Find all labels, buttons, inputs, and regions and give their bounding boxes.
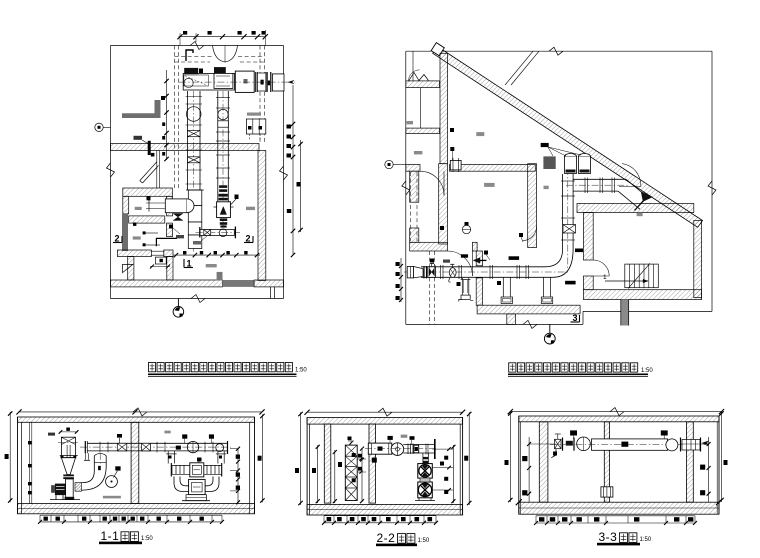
left edge dimension blobs plan2 — [400, 258, 402, 302]
wall V3 stair room left — [583, 213, 593, 261]
fan base — [415, 500, 435, 502]
corner tick stars — [516, 499, 522, 505]
U-bend right — [205, 477, 219, 492]
section 1-1 top dimension line — [19, 411, 262, 413]
stack side leader ticks — [357, 458, 366, 460]
svg-text:1:50: 1:50 — [418, 538, 430, 544]
vent zigzag symbol — [409, 73, 429, 81]
plan 2 boundary top wall — [406, 50, 712, 52]
inline box s2 — [414, 445, 419, 453]
cyclone flange — [60, 455, 78, 457]
duct elbow to riser — [545, 249, 563, 267]
right wall crossing unit striped — [680, 438, 682, 452]
pipe end flange left — [199, 227, 201, 238]
axis bubble stem plan2 — [549, 324, 551, 333]
axis bubble A left — [95, 123, 103, 131]
axis bubble B left plan2 — [385, 160, 393, 168]
duct D1 flange ticks — [186, 96, 203, 98]
door arc on H2 — [447, 251, 472, 276]
svg-text:1:50: 1:50 — [640, 537, 652, 543]
door arc stair room — [593, 260, 609, 276]
duct circle small — [216, 444, 224, 452]
UD flange ticks — [584, 178, 586, 194]
interior dimension line room row — [173, 254, 260, 256]
section 2-2 top dimension line — [307, 411, 463, 413]
pump pedestal — [186, 495, 206, 501]
duct MD inlet reducer cone — [414, 267, 423, 278]
wall V5 mid-lower — [476, 251, 482, 266]
duct MD drop branch 2 — [502, 277, 504, 297]
room R1 left wall — [123, 196, 129, 214]
section 2-2 left dim line — [300, 412, 302, 505]
pipe end flange right — [234, 227, 236, 239]
exhaust fan EF1 canister — [565, 157, 577, 174]
wall H1 right segment — [450, 165, 536, 172]
filter stack column — [345, 445, 357, 500]
room R2 left wall grey — [122, 214, 128, 251]
duct D2 inline box — [218, 121, 229, 127]
section 1-1 right dimension line — [261, 415, 263, 503]
room R2 equipment marks — [143, 231, 146, 234]
base line under cyclone — [50, 499, 80, 501]
wall V4 right end — [694, 221, 702, 298]
section 2-2 roof slab — [307, 418, 463, 425]
filter box U1 — [235, 71, 254, 92]
inlet top tick — [557, 434, 559, 440]
label above pumps — [197, 458, 202, 462]
plan 2 bottom boundary — [406, 323, 583, 325]
room labels left shaft — [407, 121, 414, 124]
duct MD butterfly damper — [428, 267, 436, 278]
filter-fan unit A — [217, 202, 231, 218]
duct blob mid — [176, 446, 181, 450]
exhaust symbol with leader — [134, 136, 143, 140]
svg-text:1:50: 1:50 — [295, 368, 307, 374]
room label P-well — [637, 213, 643, 216]
section 2-2 floor slab — [307, 504, 463, 515]
pump upper side pipes striped — [171, 465, 173, 474]
duct D1 filter cell stack — [188, 190, 202, 206]
svg-text:1-1: 1-1 — [101, 529, 120, 543]
shaft divider line — [420, 88, 422, 129]
break symbol top wall — [190, 42, 204, 50]
left wall lower hatch lower — [410, 228, 419, 242]
left wall lower hatch upper — [410, 171, 419, 202]
long duct cylinder — [592, 439, 668, 450]
horizontal pipe to plenum — [200, 230, 235, 236]
cyclone dust collector top dim — [60, 431, 78, 433]
wall H2 lower-left — [410, 242, 448, 251]
axis bubble stem plan1 — [177, 299, 179, 307]
section 1-1 floor slab — [18, 504, 255, 514]
duct to wall — [403, 444, 434, 446]
UD angled segment through wall — [626, 179, 648, 197]
wall H4 bottom of stair room — [583, 290, 701, 300]
bottom hatched wall band W4 — [111, 280, 223, 287]
section 3-3 right dim line — [721, 412, 723, 502]
duct flange ticks s1 — [99, 442, 101, 453]
fan F2 casing — [214, 73, 233, 88]
brace diagonal lower-left — [123, 264, 133, 272]
caption plan2: di-er fanghu danyuan zhanshi paifeng jifang pingmiantu 1:50 — [509, 363, 516, 372]
room R3 pump box — [155, 257, 166, 264]
room R1 right wall — [167, 196, 173, 216]
intake duct cylinder — [272, 74, 284, 91]
duct D2 damper circle — [218, 109, 228, 119]
small fan symbol room center — [462, 225, 470, 233]
svg-text:2-2: 2-2 — [377, 531, 396, 545]
component on wall H1 — [450, 160, 461, 170]
unit A label leader — [230, 199, 236, 205]
label and tick top area — [450, 128, 454, 132]
tick above duct s2 — [411, 440, 413, 445]
pump unit lower — [189, 479, 206, 494]
riser pipe to fans — [422, 453, 424, 464]
silencer label — [388, 436, 393, 440]
wall V2 vertical — [528, 164, 537, 248]
plan 2 boundary right wall — [711, 51, 713, 311]
section 3-3 wall M — [604, 422, 609, 502]
left inner dim line s3 — [528, 437, 530, 502]
elbow duct S-bend — [81, 456, 94, 483]
exhaust fan EF2 canister — [579, 157, 591, 174]
fan label leaders — [541, 143, 549, 147]
room R2 pipe elbow — [156, 238, 177, 246]
duct MD drop branch 1 — [461, 278, 463, 295]
section 3-3 floor slab — [519, 502, 719, 514]
duct MD small valve circle — [449, 268, 456, 278]
pipe valve V3 — [204, 230, 211, 236]
main duct left flanges — [84, 441, 86, 453]
fan scroll circle — [391, 443, 404, 456]
axial fan unit 2 — [418, 482, 433, 498]
door through diagonal wall — [622, 164, 641, 187]
drop pipe left to pump — [167, 451, 169, 464]
cyclone drop duct — [66, 479, 74, 500]
wall W1 horizontal hatched band — [111, 144, 260, 151]
double door arcs at top wall — [213, 46, 226, 63]
duct D2 flange ticks — [216, 97, 230, 99]
section 3-3 wall L — [539, 422, 548, 502]
cyclone cone — [61, 458, 75, 475]
duct MD drop branch 3 — [543, 277, 545, 297]
left bracket below duct — [551, 449, 556, 458]
right inner dim arrowhead — [702, 441, 709, 445]
axis bubble plan2 — [544, 333, 555, 344]
double riser lines bottom right — [270, 287, 272, 299]
right inner dim line s3 — [708, 437, 710, 502]
left well inner line top — [412, 51, 414, 81]
section 1-1 roof slab — [18, 417, 255, 422]
duct circle large — [187, 441, 198, 452]
upper duct UD to diagonal wall — [574, 178, 627, 180]
left shaft wall band H-a — [406, 81, 440, 88]
fan F2 motor block — [214, 67, 226, 74]
pipe damper circle — [219, 229, 227, 237]
main duct valve B — [142, 443, 151, 451]
duct left inlet valve — [555, 439, 562, 448]
dashed duct-shaft lines vertical left pair — [174, 46, 176, 189]
equipment labels E-codes — [509, 256, 519, 260]
stack right dim line — [361, 448, 363, 502]
tick pair above duct — [119, 438, 121, 443]
duct labels above s3 — [570, 430, 577, 435]
duct MD reducer flanges — [423, 266, 425, 278]
top dimension line plan1 — [179, 36, 267, 38]
section 1-1 middle wall — [131, 422, 139, 503]
break symbol bottom wall — [191, 295, 205, 303]
section 1-1 interior pilaster lines — [28, 422, 30, 503]
section 3-3 left dim line — [509, 412, 511, 502]
flex connector rings above unit A — [219, 185, 227, 188]
vertical duct D2 right — [217, 91, 219, 202]
diagonal wall end cap top — [431, 43, 444, 56]
dashed recess lines below duct — [428, 251, 430, 324]
left shaft wall band H-b — [406, 128, 440, 133]
section 1-1 left wall — [17, 417, 19, 514]
silencer box — [368, 443, 392, 454]
flex between fans — [420, 478, 430, 482]
duct MD inlet end cap — [407, 267, 413, 278]
break symbol right wall — [280, 166, 288, 180]
right inner dimension ticks s1 — [237, 449, 239, 503]
plenum box U2 with flanges — [255, 72, 257, 92]
main duct valve A — [117, 443, 127, 451]
drop pipe right to pump — [217, 451, 219, 464]
diagonal blast wall — [433, 47, 703, 228]
room R3 right wall — [167, 257, 173, 280]
UD damper arrow — [641, 192, 653, 202]
svg-text:1:50: 1:50 — [141, 536, 153, 542]
stub below band H5 — [507, 314, 516, 325]
end circle right — [666, 439, 678, 451]
equipment centreline — [179, 81, 295, 83]
wall H3 top of stair room — [577, 204, 694, 213]
mid-wall pipe unit — [601, 487, 613, 497]
section1 main duct — [87, 442, 227, 444]
svg-text:3-3: 3-3 — [599, 530, 618, 544]
section 2-2 right dim line — [468, 412, 470, 505]
fan label leaders right — [432, 448, 453, 450]
dashed door in left wall — [410, 172, 412, 241]
section 3-3 left wall line — [518, 416, 520, 514]
section 1-1 left dimension line — [9, 412, 11, 502]
pump unit upper — [190, 463, 204, 477]
duct MD flange ticks — [440, 265, 442, 279]
room R1 diffusion chamber top wall — [123, 188, 173, 196]
duct D1 valve V2 — [188, 157, 201, 163]
section 2-2 left wall — [306, 418, 308, 516]
thin shaft lines to top wall — [505, 51, 533, 85]
filter stack top tick — [348, 440, 354, 442]
wall flange bar — [434, 439, 436, 459]
shaft lines below W1 — [156, 151, 158, 189]
dashed corridor lines horizontal — [175, 56, 213, 58]
left well door arc top — [409, 70, 420, 81]
section 3-3 roof slab — [519, 416, 719, 422]
break symbol left wall — [107, 163, 115, 177]
ladder diagonal — [140, 162, 157, 181]
riser valve — [563, 225, 576, 234]
cyclone outlet flanges — [63, 475, 74, 477]
duct D1 damper circle — [186, 107, 201, 122]
duct end cap — [227, 441, 229, 454]
flex connector striped s2 — [407, 444, 409, 455]
U-bend left — [174, 477, 189, 492]
axial fan unit 1 — [418, 464, 433, 479]
dashed duct-shaft lines vertical right pair — [259, 46, 261, 144]
section 2-2 right wall — [462, 418, 464, 516]
plan 1: filtered air-intake machine room - outer boundary wall — [111, 45, 284, 47]
stair — [625, 264, 659, 288]
section 3-3 bottom dimension row — [536, 515, 695, 517]
flow arrow on wall V5 — [473, 258, 480, 264]
grey duct stub above W4 — [217, 272, 223, 281]
duct drop stub left — [84, 453, 86, 460]
riser flange ticks — [561, 180, 575, 182]
interior wall V1 vertical — [440, 53, 448, 163]
pressure gauge circle — [106, 476, 118, 488]
stack dim lines — [317, 445, 319, 503]
door arc on H1 — [420, 171, 444, 195]
room label exhaust machine room — [476, 132, 484, 136]
bowtie valve below fan — [173, 214, 183, 218]
wall H1 left segment — [406, 165, 420, 172]
section 3-3 top dimension line — [510, 411, 721, 413]
grey platform L-shape — [122, 100, 161, 118]
stair direction arrow — [605, 280, 648, 282]
flex connector hatched — [75, 483, 81, 492]
room R3 left wall — [128, 257, 134, 280]
room label intake fan room — [206, 264, 217, 267]
bottom band H5 — [477, 305, 580, 314]
black duct penetration in W1 — [148, 141, 151, 155]
vertical supply duct D1 left — [187, 91, 189, 190]
grey control box — [543, 156, 555, 169]
room R2 right wall — [167, 223, 173, 237]
fan F1 motor block — [184, 68, 198, 74]
fresh-air AHU small unit right — [246, 119, 265, 134]
wall bracket symbol top-left — [186, 50, 193, 61]
room label wartime intake — [103, 496, 121, 499]
exhaust riser duct — [562, 174, 564, 249]
section 3-3 right wall line — [718, 416, 720, 514]
section 1-1 bottom dimension row — [40, 514, 222, 516]
duct flange ticks s2 — [425, 444, 427, 455]
section 2-2 bottom dimension row — [324, 515, 436, 517]
axis bubble plan1 — [173, 307, 184, 318]
section 2-2 wall B — [369, 424, 376, 503]
cyclone body — [61, 437, 75, 458]
pipe label leader — [201, 236, 207, 241]
outer right dimension line plan1 — [300, 140, 302, 232]
coupling circle left — [577, 437, 591, 451]
plan 2 boundary left wall — [405, 51, 407, 324]
supply fan unit F1 casing — [183, 73, 234, 90]
duct labels above — [182, 434, 187, 438]
room R1/R2 divider wall — [129, 216, 165, 223]
svg-text:1:50: 1:50 — [641, 368, 653, 374]
duct D1 valve V1 — [188, 131, 201, 137]
wall W2 vertical hatched right — [258, 151, 266, 281]
section 3-3 wall R — [686, 422, 693, 502]
main exhaust duct MD outline — [421, 266, 545, 268]
caption plan1: di-er fanghu danyuan zhanshi lüdu jinfeng jifang pingmiantu 1:50 — [149, 363, 156, 372]
grey chimney stub — [621, 300, 629, 326]
flex connector rings below unit A — [220, 218, 227, 221]
door arc on V2 — [523, 227, 537, 241]
room R1 fan unit — [165, 199, 187, 213]
section 2-2 wall A — [324, 424, 331, 503]
left dimension line of fan row — [166, 70, 168, 160]
room R2/R3 divider wall — [117, 250, 151, 257]
cyclone fan block — [55, 484, 66, 496]
svg-text:1: 1 — [603, 274, 607, 281]
right dimension column plan1 — [292, 85, 294, 255]
valve labels near duct MD — [430, 259, 434, 263]
section 1-1 right wall — [254, 417, 256, 514]
